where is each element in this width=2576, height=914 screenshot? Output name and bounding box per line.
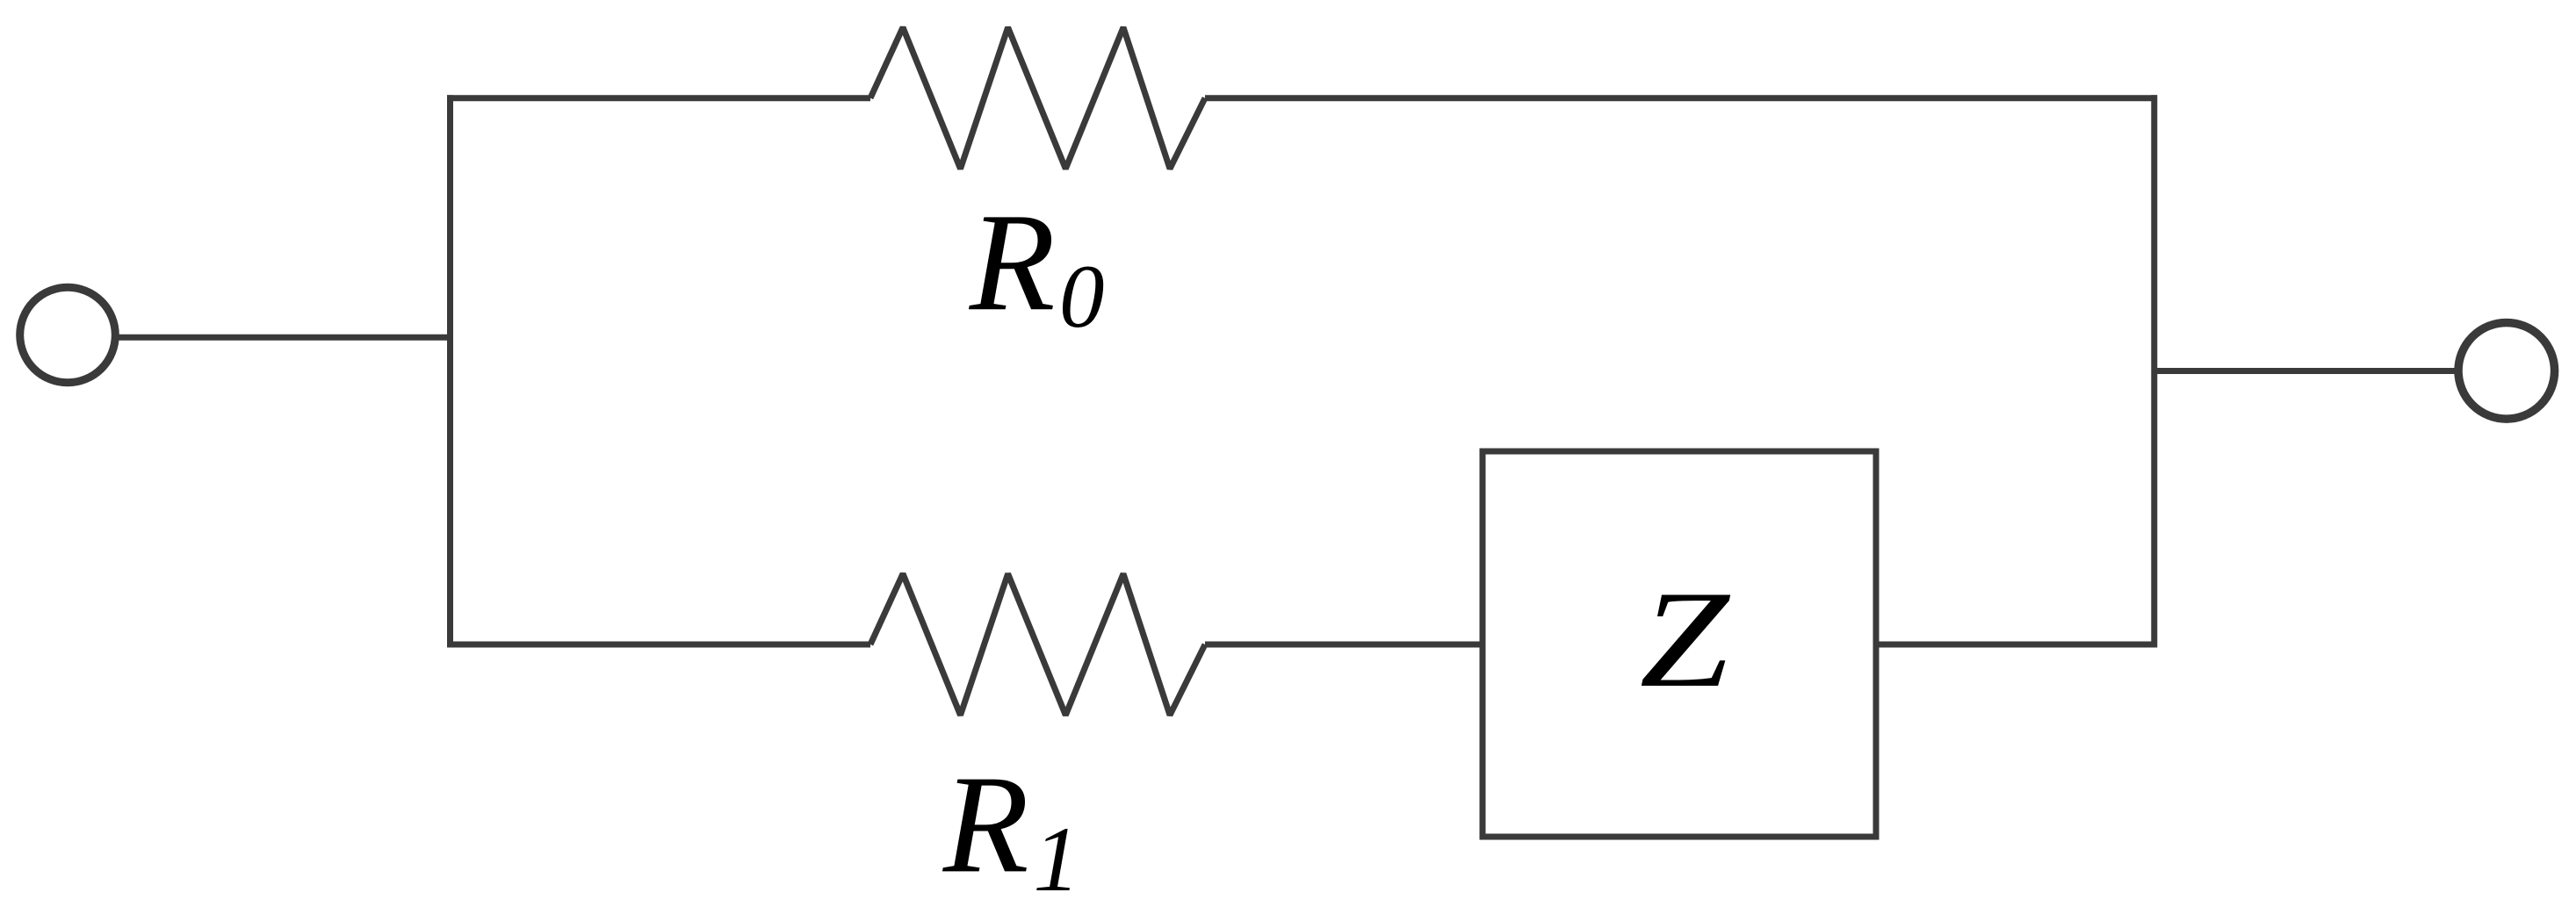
wire: top branch left segment [447, 95, 870, 101]
node: left junction vertical [447, 95, 453, 647]
resistor R0 [870, 27, 1205, 169]
svg-text:Z: Z [1640, 563, 1731, 716]
right terminal [2458, 323, 2555, 420]
node: right junction vertical [2151, 95, 2157, 647]
left terminal [20, 287, 116, 383]
wire: bottom branch left segment [447, 642, 870, 648]
wire: bottom branch middle segment [1205, 642, 1483, 648]
wire: bottom branch right segment [1876, 642, 2154, 648]
svg-text:R: R [942, 745, 1029, 902]
svg-text:R: R [969, 184, 1056, 340]
wire: left lead [117, 335, 451, 341]
svg-text:0: 0 [1059, 247, 1105, 347]
impedance box Z [1483, 451, 1876, 837]
resistor R1 [870, 574, 1205, 716]
wire: top branch right segment [1205, 95, 2157, 101]
wire: output lead [2154, 368, 2458, 374]
svg-text:1: 1 [1033, 808, 1079, 910]
